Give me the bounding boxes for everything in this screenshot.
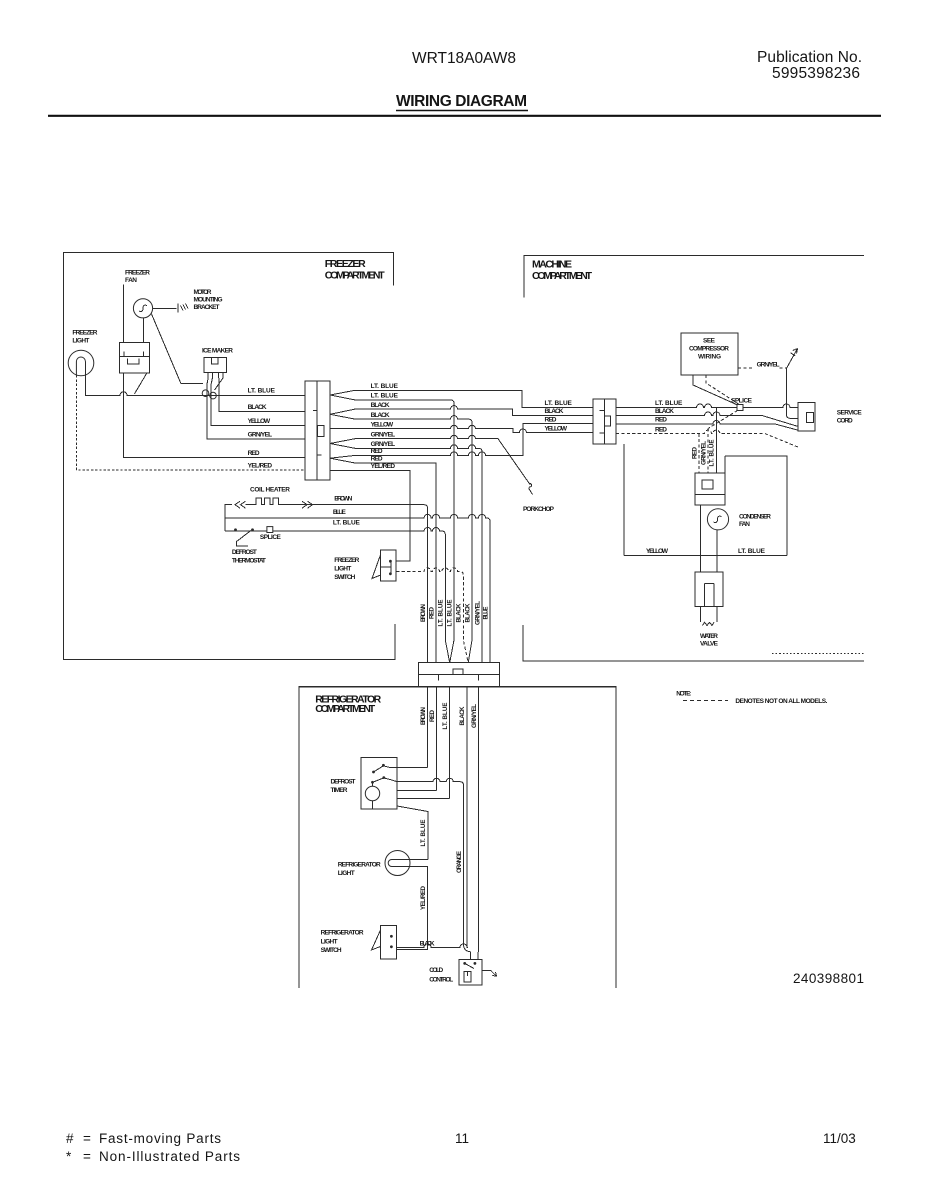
svg-text:YELLOW: YELLOW <box>545 425 568 432</box>
svg-text:TIMER: TIMER <box>331 787 348 794</box>
svg-text:LT. BLUE: LT. BLUE <box>371 383 399 390</box>
svg-text:BLACK: BLACK <box>371 412 390 419</box>
svg-text:CONDENSER: CONDENSER <box>739 514 771 521</box>
svg-text:COMPARTMENT: COMPARTMENT <box>315 703 376 715</box>
svg-text:SPLICE: SPLICE <box>731 398 753 405</box>
svg-text:RED: RED <box>545 417 557 424</box>
svg-text:RED: RED <box>428 606 435 619</box>
svg-text:BROWN: BROWN <box>420 603 427 622</box>
svg-text:*: * <box>66 1149 72 1164</box>
svg-text:BLACK: BLACK <box>371 402 390 409</box>
svg-text:240398801: 240398801 <box>793 971 864 986</box>
svg-text:YEL/RED: YEL/RED <box>371 463 396 470</box>
svg-text:RED: RED <box>655 417 667 424</box>
svg-text:GRN/YEL: GRN/YEL <box>471 704 478 728</box>
svg-text:BLACK: BLACK <box>655 408 674 415</box>
svg-text:BROWN: BROWN <box>334 496 352 503</box>
svg-text:LIGHT: LIGHT <box>334 566 351 573</box>
svg-text:Non-Illustrated Parts: Non-Illustrated Parts <box>99 1149 240 1164</box>
svg-text:=: = <box>83 1149 91 1164</box>
svg-text:GRN/YEL: GRN/YEL <box>474 601 481 625</box>
svg-text:COLD: COLD <box>429 967 443 974</box>
svg-text:LT. BLUE: LT. BLUE <box>371 393 399 400</box>
svg-text:LIGHT: LIGHT <box>72 338 89 345</box>
svg-text:BLUE: BLUE <box>333 509 347 516</box>
svg-text:SWITCH: SWITCH <box>321 947 342 954</box>
svg-text:BLUE: BLUE <box>482 607 489 620</box>
svg-text:REFRIGERATOR: REFRIGERATOR <box>338 862 381 869</box>
svg-text:LT. BLUE: LT. BLUE <box>442 703 449 730</box>
svg-text:MOUNTING: MOUNTING <box>194 297 223 304</box>
svg-text:THERMOSTAT: THERMOSTAT <box>232 558 266 565</box>
svg-text:FAN: FAN <box>125 277 137 284</box>
svg-text:11: 11 <box>455 1131 469 1146</box>
svg-text:PORKCHOP: PORKCHOP <box>523 506 555 513</box>
svg-text:CONTROL: CONTROL <box>429 977 453 984</box>
svg-text:MACHINE: MACHINE <box>532 258 572 270</box>
svg-text:SEE: SEE <box>703 338 716 345</box>
svg-text:COIL HEATER: COIL HEATER <box>250 487 290 494</box>
svg-text:REFRIGERATOR: REFRIGERATOR <box>321 930 364 937</box>
svg-text:BLACK: BLACK <box>545 408 564 415</box>
svg-text:GRN/YEL: GRN/YEL <box>248 432 273 439</box>
svg-text:RED: RED <box>655 426 667 433</box>
svg-text:LT. BLUE: LT. BLUE <box>446 600 453 627</box>
svg-text:GRN/YEL: GRN/YEL <box>757 362 780 369</box>
svg-text:LT. BLUE: LT. BLUE <box>333 519 361 526</box>
svg-text:CORD: CORD <box>837 418 853 425</box>
svg-text:RED: RED <box>429 709 436 722</box>
svg-text:LT. BLUE: LT. BLUE <box>420 820 427 847</box>
svg-text:BLACK: BLACK <box>459 706 466 726</box>
svg-text:LIGHT: LIGHT <box>338 870 355 877</box>
svg-text:FREEZER: FREEZER <box>325 258 366 270</box>
svg-text:WRT18A0AW8: WRT18A0AW8 <box>412 50 516 67</box>
svg-text:ORANGE: ORANGE <box>456 851 463 873</box>
svg-text:Fast-moving Parts: Fast-moving Parts <box>99 1131 221 1146</box>
svg-text:FREEZER: FREEZER <box>125 270 150 277</box>
svg-text:DEFROST: DEFROST <box>331 779 356 786</box>
svg-text:LT. BLUE: LT. BLUE <box>738 548 766 555</box>
svg-text:NOTE:: NOTE: <box>676 691 691 698</box>
svg-text:SERVICE: SERVICE <box>837 410 863 417</box>
svg-text:LT. BLUE: LT. BLUE <box>655 400 683 407</box>
svg-text:YELLOW: YELLOW <box>646 548 669 555</box>
svg-text:WATER: WATER <box>700 633 718 640</box>
svg-text:LIGHT: LIGHT <box>321 939 338 946</box>
svg-text:RED: RED <box>248 450 260 457</box>
svg-text:FREEZER: FREEZER <box>334 557 359 564</box>
svg-text:VALVE: VALVE <box>700 641 719 648</box>
svg-text:BLACK: BLACK <box>248 404 267 411</box>
svg-text:WIRING DIAGRAM: WIRING DIAGRAM <box>396 93 527 110</box>
svg-text:MOTOR: MOTOR <box>194 289 212 296</box>
svg-text:WIRING: WIRING <box>698 354 721 361</box>
svg-text:BLACK: BLACK <box>464 603 471 623</box>
svg-text:LT. BLUE: LT. BLUE <box>438 600 445 627</box>
svg-text:Publication No.: Publication No. <box>757 49 862 66</box>
svg-text:GRN/YEL: GRN/YEL <box>371 441 396 448</box>
svg-text:YEL/RED: YEL/RED <box>248 462 273 469</box>
svg-text:ICE MAKER: ICE MAKER <box>202 348 233 355</box>
svg-text:5995398236: 5995398236 <box>772 65 860 82</box>
svg-text:RED: RED <box>691 446 698 459</box>
svg-text:SWITCH: SWITCH <box>334 574 355 581</box>
svg-text:DEFROST: DEFROST <box>232 549 257 556</box>
svg-text:FAN: FAN <box>739 521 750 528</box>
svg-text:COMPARTMENT: COMPARTMENT <box>532 270 593 282</box>
svg-text:=: = <box>83 1131 91 1146</box>
svg-text:DENOTES NOT ON ALL MODELS.: DENOTES NOT ON ALL MODELS. <box>735 698 827 705</box>
svg-text:RED: RED <box>371 456 383 463</box>
svg-text:YEL/RED: YEL/RED <box>420 885 427 910</box>
svg-text:BLACK: BLACK <box>456 603 463 623</box>
svg-text:11/03: 11/03 <box>823 1131 856 1146</box>
svg-text:#: # <box>66 1131 74 1146</box>
svg-text:GRN/YEL: GRN/YEL <box>700 441 707 465</box>
svg-text:BLACK: BLACK <box>420 941 435 948</box>
svg-text:YELLOW: YELLOW <box>248 418 271 425</box>
svg-text:LT. BLUE: LT. BLUE <box>709 440 716 467</box>
svg-text:FREEZER: FREEZER <box>72 330 97 337</box>
svg-text:COMPARTMENT: COMPARTMENT <box>325 269 386 281</box>
svg-text:BROWN: BROWN <box>420 706 427 725</box>
svg-text:BRACKET: BRACKET <box>194 304 220 311</box>
svg-text:SPLICE: SPLICE <box>260 534 282 541</box>
svg-text:YELLOW: YELLOW <box>371 421 394 428</box>
svg-text:GRN/YEL: GRN/YEL <box>371 431 396 438</box>
svg-text:LT. BLUE: LT. BLUE <box>248 388 276 395</box>
svg-text:COMPRESSOR: COMPRESSOR <box>689 346 729 353</box>
svg-text:LT. BLUE: LT. BLUE <box>545 400 573 407</box>
svg-text:RED: RED <box>371 448 383 455</box>
